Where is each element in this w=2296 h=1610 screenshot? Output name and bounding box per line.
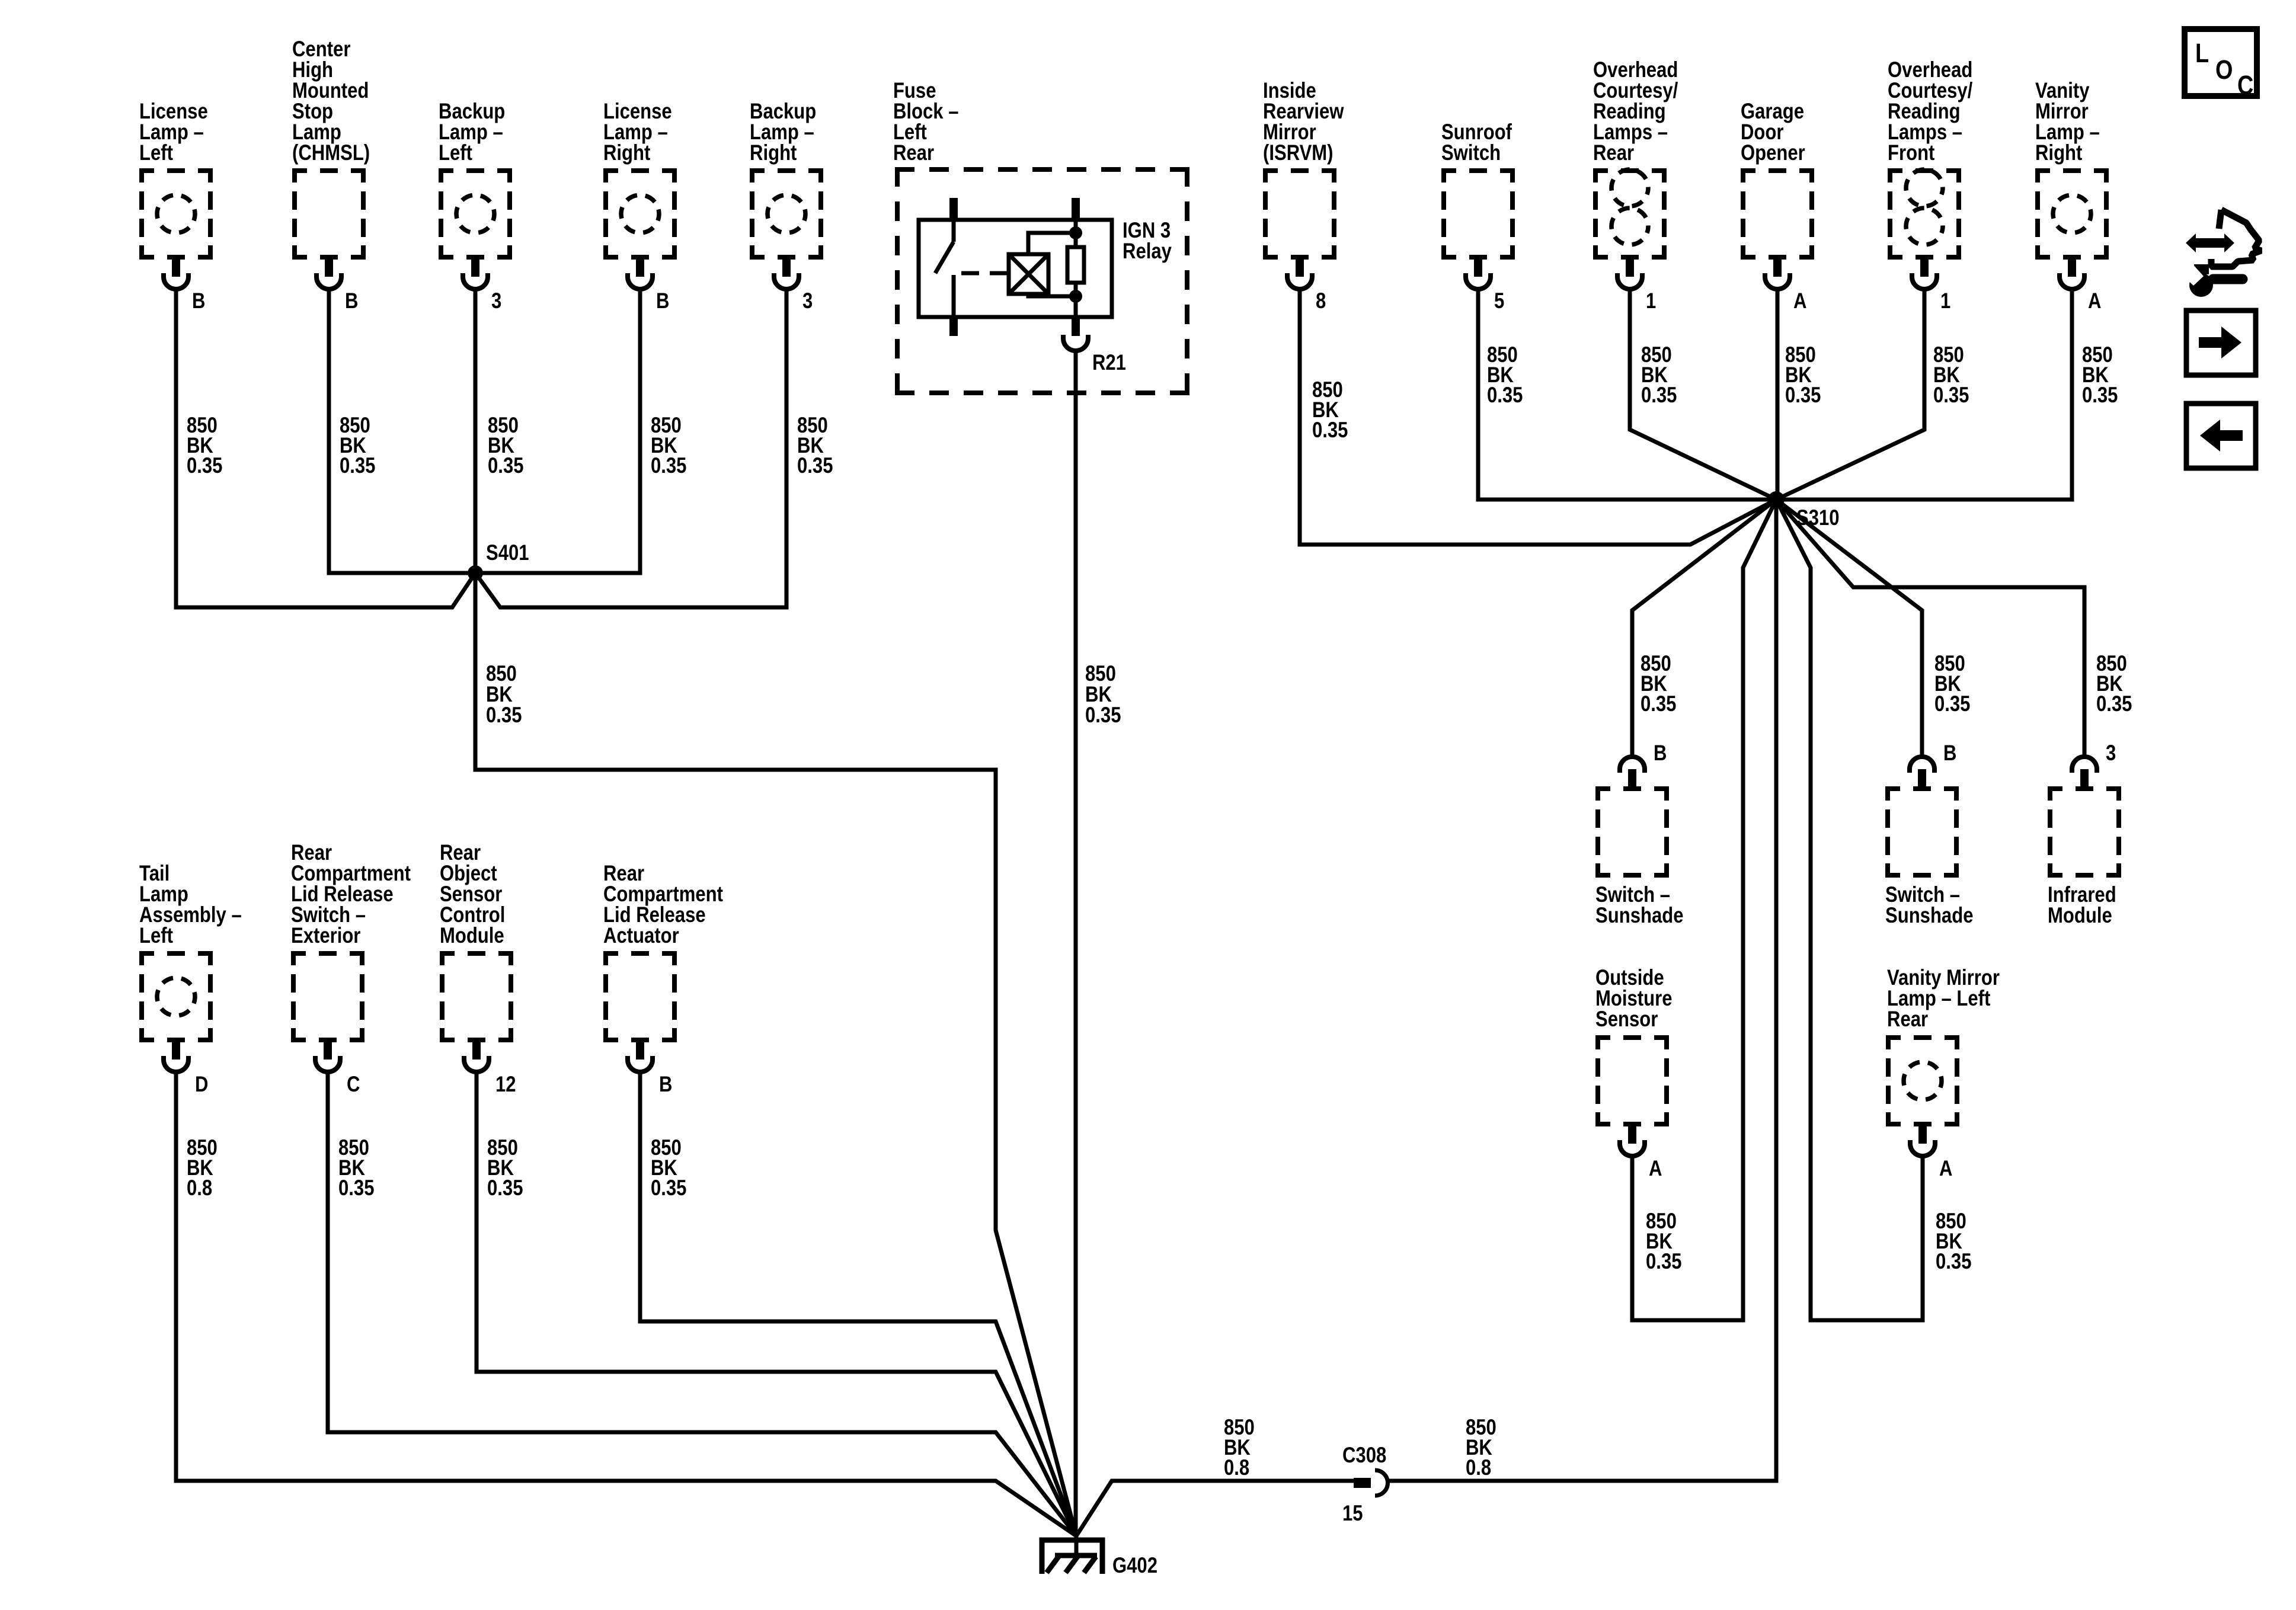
overhead courtesy reading lamps front bulbs [1906,169,1943,245]
wire label 850 BK 0.8 (bus right of C308) [1466,1416,1496,1480]
svg-text:0.35: 0.35 [1785,383,1821,408]
overhead courtesy reading lamps rear label [1593,58,1678,165]
rear compartment lid release switch exterior connector [315,1042,340,1072]
backup lamp right [750,168,823,260]
overhead courtesy reading lamps front label [1888,58,1973,165]
svg-text:R21: R21 [1092,351,1126,375]
svg-text:0.35: 0.35 [1487,383,1523,408]
svg-text:Sunshade: Sunshade [1885,904,1973,928]
svg-text:0.35: 0.35 [1936,1250,1971,1274]
wire R21 to G402 [1074,350,1078,1536]
svg-text:0.35: 0.35 [340,454,375,478]
overhead courtesy reading lamps rear [1593,168,1667,260]
svg-text:Switch: Switch [1441,141,1501,165]
svg-text:0.35: 0.35 [651,454,686,478]
rear compartment lid release actuator label [603,862,723,948]
svg-text:0.35: 0.35 [338,1176,374,1201]
license lamp left bulb [157,195,195,233]
outside moisture sensor [1595,1035,1669,1126]
svg-text:Right: Right [2035,141,2082,165]
wire lid release switch to G402 [328,1073,1076,1536]
vanity mirror lamp left rear [1886,1035,1959,1126]
wire label 850 BK 0.35 (switch sunshade 2) [1934,652,1970,716]
wire S310 loop to outside moisture sensor [1632,500,1776,1320]
switch sunshade 1 label [1595,883,1683,928]
splice S401 [468,565,483,581]
wire overhead lamps rear to S310 [1630,289,1776,500]
vanity mirror lamp left rear connector [1910,1126,1935,1156]
wire S310 to switch sunshade 1 [1632,500,1776,757]
svg-text:A: A [1939,1157,1952,1181]
svg-text:A: A [2088,289,2101,313]
inside rearview mirror ISRVM connector pin 8 [1287,260,1312,289]
svg-text:Module: Module [2048,904,2112,928]
wire label 850 BK 0.35 (infrared module) [2096,652,2132,716]
relay coil (box with X) [1009,254,1048,294]
svg-text:Exterior: Exterior [291,924,360,948]
svg-text:Rear: Rear [1887,1007,1928,1032]
rear compartment lid release actuator connector [628,1042,653,1072]
tail lamp assembly left label [139,862,242,948]
wire label 850 BK 0.35 (garage door opener) [1785,343,1821,408]
CHMSL lamp connector pin B [316,260,341,289]
inside rearview mirror ISRVM [1263,168,1336,260]
svg-text:O: O [2215,55,2233,85]
wire lid release actuator to G402 [640,1073,1076,1536]
svg-text:8: 8 [1316,289,1326,313]
relay pin bottom-left [949,317,958,336]
svg-text:Module: Module [440,924,504,948]
wire S310 to infrared module [1776,500,2084,757]
svg-text:Sensor: Sensor [1595,1007,1658,1032]
wire object sensor module to G402 [477,1073,1076,1536]
wire ground bus left of C308 [1076,1481,1355,1536]
outside moisture sensor connector [1620,1126,1645,1156]
wiring repair icon (arrow, torn area, wrench) [2180,210,2261,297]
vanity mirror lamp right bulb [2053,195,2091,233]
junction node bottom [1069,290,1082,303]
CHMSL lamp [292,168,366,260]
fuse block - left rear (dashed outline) [895,167,1189,393]
license lamp right bulb [621,195,659,233]
switch sunshade 1 connector [1620,757,1645,786]
svg-text:Sunshade: Sunshade [1595,904,1683,928]
wire S310 loop to vanity mirror lamp left rear [1776,500,1923,1320]
wire coil top to node [1028,233,1073,254]
infrared module [2048,786,2121,878]
wire CHMSL to S401 [329,289,475,573]
svg-text:0.35: 0.35 [488,454,523,478]
relay output connector R21 [1063,317,1088,351]
garage door opener [1741,168,1814,260]
svg-text:(CHMSL): (CHMSL) [292,141,370,165]
wire label 850 BK 0.35 (outside moisture sensor) [1646,1209,1681,1274]
sunroof switch [1441,168,1515,260]
svg-text:0.35: 0.35 [1085,703,1121,728]
relay resistor [1067,220,1084,317]
ground G402 symbol [1042,1536,1102,1574]
wire label 850 BK 0.8 (tail lamp) [187,1136,218,1201]
switch sunshade 1 [1595,786,1669,878]
svg-text:3: 3 [491,289,501,313]
svg-text:B: B [192,289,205,313]
vanity mirror lamp right connector pin A [2060,260,2084,289]
switch sunshade 2 connector [1910,757,1934,786]
vanity mirror lamp right label [2035,79,2100,165]
wire tail lamp to G402 [176,1073,1076,1536]
license lamp right [603,168,677,260]
inside rearview mirror ISRVM label [1263,79,1344,165]
wire license lamp right to S401 [475,289,640,573]
svg-text:0.35: 0.35 [486,703,522,728]
previous-page arrow icon (left) [2186,404,2256,468]
vanity mirror lamp left rear label [1887,966,2000,1032]
svg-text:B: B [659,1073,672,1097]
IGN 3 relay outline [919,220,1112,317]
svg-text:12: 12 [495,1073,516,1097]
svg-text:0.35: 0.35 [1312,418,1348,443]
svg-text:0.35: 0.35 [2082,383,2118,408]
svg-text:Relay: Relay [1123,239,1172,264]
svg-text:0.8: 0.8 [1224,1456,1249,1480]
svg-text:0.8: 0.8 [187,1176,212,1201]
svg-text:Left: Left [139,924,173,948]
wire label 850 BK 0.35 (backup lamp right) [797,414,833,478]
tail lamp assembly left [139,951,213,1042]
svg-text:Left: Left [439,141,472,165]
next-page arrow icon (right) [2186,311,2256,375]
svg-text:1: 1 [1646,289,1656,313]
svg-text:D: D [195,1073,208,1097]
svg-text:0.35: 0.35 [2096,692,2132,716]
backup lamp right bulb [768,195,805,233]
svg-text:A: A [1793,289,1806,313]
wire coil bottom to node [1028,294,1073,296]
svg-text:Opener: Opener [1741,141,1805,165]
svg-text:Actuator: Actuator [603,924,679,948]
sunroof switch connector pin 5 [1466,260,1491,289]
svg-text:0.35: 0.35 [1646,1250,1681,1274]
svg-text:0.35: 0.35 [1933,383,1969,408]
overhead courtesy reading lamps front connector pin 1 [1912,260,1937,289]
wire label 850 BK 0.35 (overhead lamps front) [1933,343,1969,408]
tail lamp assembly left connector [164,1042,188,1072]
outside moisture sensor label [1595,966,1672,1032]
wire label 850 BK 0.35 (license lamp left) [187,414,222,478]
svg-text:0.35: 0.35 [187,454,222,478]
svg-text:B: B [1943,741,1956,766]
svg-text:Rear: Rear [1593,141,1634,165]
infrared module connector [2072,757,2097,786]
license lamp left [139,168,213,260]
rear compartment lid release actuator [603,951,677,1042]
wire label 850 BK 0.35 (lid release actuator) [651,1136,686,1201]
wire label 850 BK 0.35 (backup lamp left) [488,414,523,478]
wire S401 to G402 [475,573,1076,1536]
license lamp left connector pin B [164,260,188,289]
wire label 850 BK 0.35 (CHMSL) [340,414,375,478]
backup lamp left bulb [456,195,494,233]
rear object sensor control module label [440,841,505,948]
junction node top [1069,226,1082,239]
fuse block label [893,79,959,165]
wire label 850 BK 0.35 (license lamp right) [651,414,686,478]
svg-text:5: 5 [1494,289,1504,313]
wire label 850 BK 0.35 (S401 output) [486,662,522,728]
rear object sensor control module [440,951,513,1042]
connector C308 symbol [1354,1470,1388,1496]
relay pin top-left [949,198,958,220]
wire label 850 BK 0.8 (bus left of C308) [1224,1416,1255,1480]
wire label 850 BK 0.35 (sunroof switch) [1487,343,1523,408]
switch sunshade 2 label [1885,883,1973,928]
svg-text:L: L [2195,38,2209,68]
wire label 850 BK 0.35 (object sensor module) [487,1136,523,1201]
backup lamp left label [439,100,505,165]
svg-text:(ISRVM): (ISRVM) [1263,141,1334,165]
overhead courtesy reading lamps rear bulbs [1611,169,1648,245]
relay pin top-right [1072,198,1080,220]
wire label 850 BK 0.35 (vanity mirror right) [2082,343,2118,408]
svg-text:B: B [345,289,358,313]
wire label 850 BK 0.35 (R21 wire) [1085,662,1121,728]
svg-text:G402: G402 [1112,1554,1157,1578]
svg-text:Right: Right [603,141,650,165]
svg-text:0.35: 0.35 [797,454,833,478]
rear object sensor control module connector [464,1042,489,1072]
overhead courtesy reading lamps rear connector pin 1 [1617,260,1642,289]
rear compartment lid release switch exterior [291,951,364,1042]
vanity mirror lamp right [2035,168,2109,260]
wire S310 to switch sunshade 2 [1776,500,1922,757]
backup lamp right connector pin 3 [774,260,799,289]
svg-text:Front: Front [1888,141,1934,165]
svg-text:1: 1 [1940,289,1950,313]
wire backup lamp left to S401 [474,289,478,573]
wire S310 main feed to ground bus [1387,500,1776,1481]
svg-text:3: 3 [802,289,813,313]
backup lamp left [439,168,512,260]
wire label 850 BK 0.35 (lid release switch) [338,1136,374,1201]
svg-text:0.35: 0.35 [1641,692,1676,716]
wire label 850 BK 0.35 (overhead lamps rear) [1641,343,1677,408]
vanity mirror lamp left rear bulb [1904,1062,1942,1100]
sunroof switch label [1441,120,1512,165]
svg-text:Rear: Rear [893,141,934,165]
svg-text:B: B [656,289,669,313]
svg-text:15: 15 [1342,1502,1363,1526]
license lamp left label [139,100,208,165]
infrared module label [2048,883,2116,928]
svg-text:Left: Left [139,141,173,165]
wire label 850 BK 0.35 (switch sunshade 1) [1641,652,1676,716]
tail lamp assembly left bulb [157,978,195,1016]
svg-text:S401: S401 [486,541,529,565]
backup lamp right label [750,100,816,165]
wire ISRVM to S310 [1300,289,1776,545]
wire backup lamp right to S401 [475,289,786,607]
label IGN 3 Relay [1123,219,1172,264]
wire label 850 BK 0.35 (vanity mirror left rear) [1936,1209,1971,1274]
svg-text:0.8: 0.8 [1466,1456,1491,1480]
relay actuation dashed link [961,271,1009,276]
overhead courtesy reading lamps front [1888,168,1961,260]
wire vanity mirror right to S310 [1776,289,2072,500]
svg-text:0.35: 0.35 [1934,692,1970,716]
garage door opener connector pin A [1765,260,1790,289]
svg-text:0.35: 0.35 [487,1176,523,1201]
svg-text:B: B [1654,741,1667,766]
wire overhead lamps front to S310 [1776,289,1924,500]
svg-text:3: 3 [2106,741,2116,766]
svg-text:0.35: 0.35 [1641,383,1677,408]
wire license lamp left to S401 [176,289,475,607]
wire label 850 BK 0.35 (ISRVM) [1312,378,1348,443]
backup lamp left connector pin 3 [463,260,488,289]
garage door opener label [1741,100,1805,165]
wire sunroof switch to S310 [1478,289,1776,500]
license lamp right label [603,100,672,165]
svg-text:C: C [2237,70,2253,100]
splice S310 [1768,491,1785,508]
license lamp right connector pin B [628,260,653,289]
rear compartment lid release switch exterior label [291,841,411,948]
svg-text:C: C [347,1073,360,1097]
svg-text:Right: Right [750,141,797,165]
LOC legend box [2185,29,2257,100]
svg-text:A: A [1649,1157,1662,1181]
svg-text:0.35: 0.35 [651,1176,686,1201]
svg-text:C308: C308 [1342,1443,1386,1468]
wire garage door opener to S310 [1776,289,1780,500]
switch sunshade 2 [1885,786,1959,878]
CHMSL lamp label [292,37,370,165]
relay switch [935,220,954,317]
